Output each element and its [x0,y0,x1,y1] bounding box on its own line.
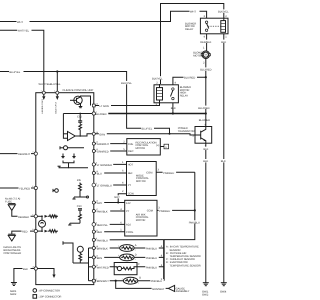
wire R2 contact pin to bus [172,103,174,114]
svg-text:14: 14 [96,141,98,144]
internal cap stages [62,154,64,157]
svg-text:COM: COM [146,171,152,174]
label BLU/YEL lower jog [141,127,154,131]
svg-text:10k: 10k [77,179,82,182]
recirc right stub connector [160,146,164,148]
svg-text:GRN/WHT: GRN/WHT [97,143,110,146]
internal dimmer: bulb between rails [37,215,42,217]
svg-text:LT GRN: LT GRN [100,105,109,108]
svg-text:TEMPERATURE SENSOR: TEMPERATURE SENSOR [170,264,201,267]
legend 20P connector [33,295,37,299]
svg-text:C20: C20 [77,205,82,208]
svg-text:LT GRN/RED: LT GRN/RED [97,164,113,167]
svg-text:: 20P CONNECTOR: : 20P CONNECTOR [38,296,62,299]
label BLU/YEL left [9,70,24,74]
pin GRN/WHT recirc [92,142,95,145]
svg-text:4: 4 [32,151,33,154]
wire LT GRN/RED [95,163,126,165]
svg-text:: 8P CONNECTOR: : 8P CONNECTOR [38,290,60,293]
internal ground arrow from BLK pin [37,269,54,275]
wire GRN/WHT [95,143,127,145]
pin top BLU/YEL [56,91,59,94]
wire WHT/RED [95,266,114,268]
svg-text:2: 2 [41,90,42,93]
pin numbers unit left edge [32,90,55,269]
svg-text:RED/YEL: RED/YEL [97,224,109,227]
svg-text:PNK/BLU: PNK/BLU [97,239,108,242]
svg-text:FRE: FRE [128,143,133,146]
svg-text:PT: PT [126,210,130,213]
svg-text:PT: PT [128,184,132,187]
transistor symbol [200,131,202,140]
mode control motor box [127,162,157,196]
svg-text:PNK/BLU: PNK/BLU [159,210,170,213]
svg-text:3: 3 [96,222,97,225]
svg-text:CLIMATE CONTROL UNIT: CLIMATE CONTROL UNIT [63,89,95,92]
sensor C sunlight sensor box [114,263,137,275]
internal transistor stage [74,96,82,104]
wire sensor B to bus [138,280,164,282]
svg-text:12: 12 [96,264,98,267]
svg-text:G402: G402 [202,293,209,296]
svg-text:WHT/YEL: WHT/YEL [39,83,51,86]
svg-text:D: D [135,253,137,256]
svg-text:BLU/RED: BLU/RED [200,69,211,72]
wire BLU/RED heavy bus [94,113,206,115]
svg-text:G402: G402 [10,293,17,296]
wire WHT main horizontal [0,11,207,21]
svg-text:BLK: BLK [203,160,208,163]
pin GRN [92,132,95,135]
svg-text:BRN/BLK: BRN/BLK [97,248,108,251]
svg-text:12V: 12V [126,202,131,205]
label WHT left [17,20,30,24]
svg-text:C: C [138,263,140,266]
dash lights brightness controller triangle [8,233,15,235]
wire BLK transistor to ground [205,143,207,283]
relay R2 blower motor high relay box [154,85,178,103]
svg-text:18: 18 [96,131,98,134]
sensor A in-car temperature sensor [120,245,134,252]
pin LT GRN/RED [92,163,95,166]
svg-text:15: 15 [96,148,98,151]
pin YEL/RED left [34,186,37,189]
svg-text:BLK: BLK [221,41,226,44]
ground G401 left [11,282,17,284]
pin RED [92,230,95,233]
pin BLU [92,172,95,175]
svg-text:1: 1 [54,90,55,93]
internal arrow+resistor row2 [45,230,48,233]
pin BRN/BLK sensor A [92,247,95,250]
svg-text:7: 7 [96,278,97,281]
label BLU/RED at pin [95,112,109,116]
svg-text:A: A [135,244,137,247]
svg-text:17: 17 [96,208,98,211]
svg-text:RED/BLK: RED/BLK [200,41,211,44]
pin top WHT/YEL [42,91,45,94]
svg-text:M: M [205,54,207,57]
wire sensor D to bus [134,256,164,258]
svg-text:10: 10 [96,170,98,173]
motor M1 blower motor [202,51,210,59]
sensor D evaporator temperature sensor [120,254,134,261]
wire LT GRN coil pin1 to unit [95,100,159,106]
internal cap under transistor [79,106,83,108]
svg-text:HEATER CONT: HEATER CONT [41,99,44,114]
wire PNK/BLK [95,210,124,212]
pin LT GRN/BLU [92,183,96,187]
svg-text:5: 5 [32,213,33,216]
sensor bus bar [163,240,165,281]
svg-text:CCW: CCW [128,193,135,196]
svg-text:BLK/YEL: BLK/YEL [218,11,229,14]
wire BRN/BLK [95,247,119,249]
svg-text:RELAY: RELAY [180,94,189,97]
wire PNK/BLU sensor common [95,239,164,241]
wire BLK relay to ground right [223,34,225,283]
label BLK/YEL top right [218,9,232,13]
pin LT GRN [92,104,95,107]
fuse feed triangle [8,203,15,205]
pin BRN/WHT sensor B [92,279,95,282]
svg-text:BLU/YEL: BLU/YEL [142,128,153,131]
svg-text:21: 21 [32,266,34,269]
pin numbers unit right edge [96,103,98,281]
svg-text:RELAY: RELAY [185,28,194,31]
wire mode COM PNK/BLU [156,171,195,173]
ground G404 [220,283,227,294]
svg-text:WHT: WHT [190,11,196,14]
svg-text:BACK UP LT: BACK UP LT [55,101,58,113]
wire RED/BLK from fuse [12,210,34,216]
svg-text:BLK: BLK [204,148,209,151]
svg-text:MOTOR: MOTOR [136,147,146,150]
power arrow 1 [43,94,45,96]
pin PNK/BLK [92,210,95,213]
svg-text:RED/BLK: RED/BLK [18,216,29,219]
internal stage near recirc rows [64,146,68,150]
internal thermistor [77,246,83,252]
legend 8P connector [33,289,37,293]
wire BLU/YEL [0,72,170,134]
svg-text:13: 13 [96,103,98,106]
svg-text:BLU/RED: BLU/RED [95,113,106,116]
svg-text:TRANSISTOR: TRANSISTOR [178,130,195,133]
svg-text:PNK/BLU: PNK/BLU [163,172,174,175]
svg-text:ADJ: ADJ [126,224,132,227]
pin BRN sensor D [92,256,95,259]
svg-text:G404: G404 [220,290,227,293]
recirculation control motor box [127,139,161,155]
power transistor Q1 box [195,127,212,144]
svg-text:PNK/BLK: PNK/BLK [97,211,108,214]
svg-text:DEF: DEF [128,172,134,175]
junction gauge branch [115,280,117,282]
svg-text:ASSEMBLY: ASSEMBLY [176,290,190,293]
wire GRN/RED [95,150,127,152]
internal mini stage left [55,189,59,193]
wire BLU [95,172,126,174]
svg-text:WHT: WHT [17,21,23,24]
pin RED/WHT left [34,152,37,155]
svg-text:1: 1 [96,111,97,114]
svg-text:RED/WHT: RED/WHT [18,153,31,156]
wire sensor A to bus [134,247,164,249]
node BLU/YEL drop [56,70,58,72]
svg-text:REC: REC [128,150,134,153]
svg-text:PNK/BLU: PNK/BLU [146,266,157,269]
svg-text:16: 16 [96,200,98,203]
svg-text:PNK/BLU: PNK/BLU [146,248,157,251]
svg-text:FUSE: FUSE [5,200,12,203]
svg-text:GRN/RED: GRN/RED [97,151,109,154]
wire GRN base drive [94,134,195,135]
svg-text:BLU/YEL: BLU/YEL [50,83,61,86]
wire RED/YEL [96,223,125,225]
label WHT right [190,9,200,13]
relay R1 blower motor relay box [200,18,228,34]
svg-text:14: 14 [32,228,34,231]
svg-text:C52: C52 [77,116,82,119]
label BLU/RED above transistor [198,106,212,110]
pin GRY [92,201,95,204]
svg-text:BLK: BLK [221,160,226,163]
svg-text:BLU/RED: BLU/RED [184,77,195,80]
wire BLU/RED motor down [205,59,207,114]
svg-text:CONTROLLER: CONTROLLER [4,252,22,255]
svg-text:6: 6 [32,185,33,188]
svg-text:WHT/RED: WHT/RED [97,266,109,269]
wire GRN/WHT to gauge [116,281,169,289]
pin RED/YEL [92,223,96,227]
internal sensor pin bracket [88,248,90,281]
wire BLU/RED high relay contact branch [173,77,206,85]
svg-text:GRY: GRY [114,196,120,199]
pin RED/BLK [34,215,37,218]
svg-text:(+): (+) [156,144,159,147]
wire YEL/RED [0,187,34,189]
relay R1 coil [221,21,226,33]
pin BLK bottom left [34,267,37,270]
svg-text:BLU/RED: BLU/RED [199,119,210,122]
svg-text:PNK/BLU: PNK/BLU [189,222,200,225]
svg-text:GRN/WHT: GRN/WHT [152,288,165,291]
wire WHT/YEL [0,30,44,92]
relay R1 contact pins [205,21,207,23]
wire BRN/WHT [95,280,123,282]
wire BLU/YEL pin drop [56,72,58,93]
svg-text:20: 20 [96,255,98,258]
svg-text:BLK/YEL: BLK/YEL [152,77,163,80]
svg-text:COOL: COOL [126,231,134,234]
svg-text:PNK/BLU: PNK/BLU [146,257,157,260]
svg-text:YEL/RED: YEL/RED [19,188,30,191]
label WHT/YEL [17,29,32,33]
svg-text:RED: RED [22,231,28,234]
relay R2 coil [157,88,163,100]
sensor B outside air temperature sensor [123,277,137,284]
svg-text:40k: 40k [53,214,58,217]
wire RED/WHT [0,153,34,155]
svg-text:BLU/YEL: BLU/YEL [121,82,132,85]
svg-text:BLK: BLK [23,268,28,271]
svg-text:MOTOR: MOTOR [193,54,203,57]
svg-text:GRN: GRN [99,133,105,136]
relay R2 contacts [172,88,174,90]
wire sensor C to bus [137,266,164,268]
svg-text:HOT: HOT [128,164,134,167]
svg-text:11: 11 [96,229,98,232]
svg-text:8: 8 [96,237,97,240]
relay R2 coil stubs [159,84,161,88]
svg-text:WHT/YEL: WHT/YEL [18,30,30,33]
wire COM vertical [164,172,195,239]
svg-text:MOTOR: MOTOR [136,219,146,222]
wire BLK/YEL top loop [161,4,224,85]
pin GRN/RED recirc [92,150,95,153]
pin RED [34,230,37,233]
relay R1 dashed link [208,25,221,27]
internal arrow+resistor row1 [45,215,48,218]
wire BLK to ground [14,269,34,283]
svg-text:9: 9 [96,162,97,165]
svg-text:MOTOR: MOTOR [136,180,146,183]
internal rail to pins [63,113,93,115]
wire LT GRN/BLU [96,184,127,186]
svg-text:19: 19 [96,245,98,248]
pin PNK/BLU sensor common [92,238,95,241]
wire airmix COM PNK/BLU [157,209,195,211]
wire bus down to power transistor [205,114,207,127]
svg-text:BLK: BLK [171,107,176,110]
internal op-amp U2 [68,132,76,141]
svg-text:2: 2 [96,182,97,185]
svg-text:LT GRN/BLU: LT GRN/BLU [97,185,112,188]
relay R1 coil top stub [223,18,225,20]
air mix control motor box [125,200,157,236]
svg-text:BRN/WHT: BRN/WHT [97,280,110,283]
wire BRN [95,256,119,258]
wire RED [95,231,124,233]
svg-text:B: B [139,277,141,280]
climate control unit U1 box [36,93,94,285]
label BLU/RED below junction [198,118,212,122]
pin BLU/RED [92,112,95,115]
gauge assembly arrow [168,285,174,291]
ground G401/G402 [202,283,209,297]
label BLU/YEL mid vertical [121,81,134,85]
wire RED/BLK relay to motor [206,34,208,51]
label BLK/YEL on vertical [152,76,166,80]
wire RED from controller [12,231,34,234]
pin WHT/RED sensor C [92,265,95,268]
power arrow 2 [56,94,58,96]
wire GRY to mode and airmix [95,202,124,204]
svg-text:BLU/RED: BLU/RED [198,107,209,110]
svg-text:COM: COM [147,209,153,212]
svg-text:BLU/YEL: BLU/YEL [10,71,21,74]
